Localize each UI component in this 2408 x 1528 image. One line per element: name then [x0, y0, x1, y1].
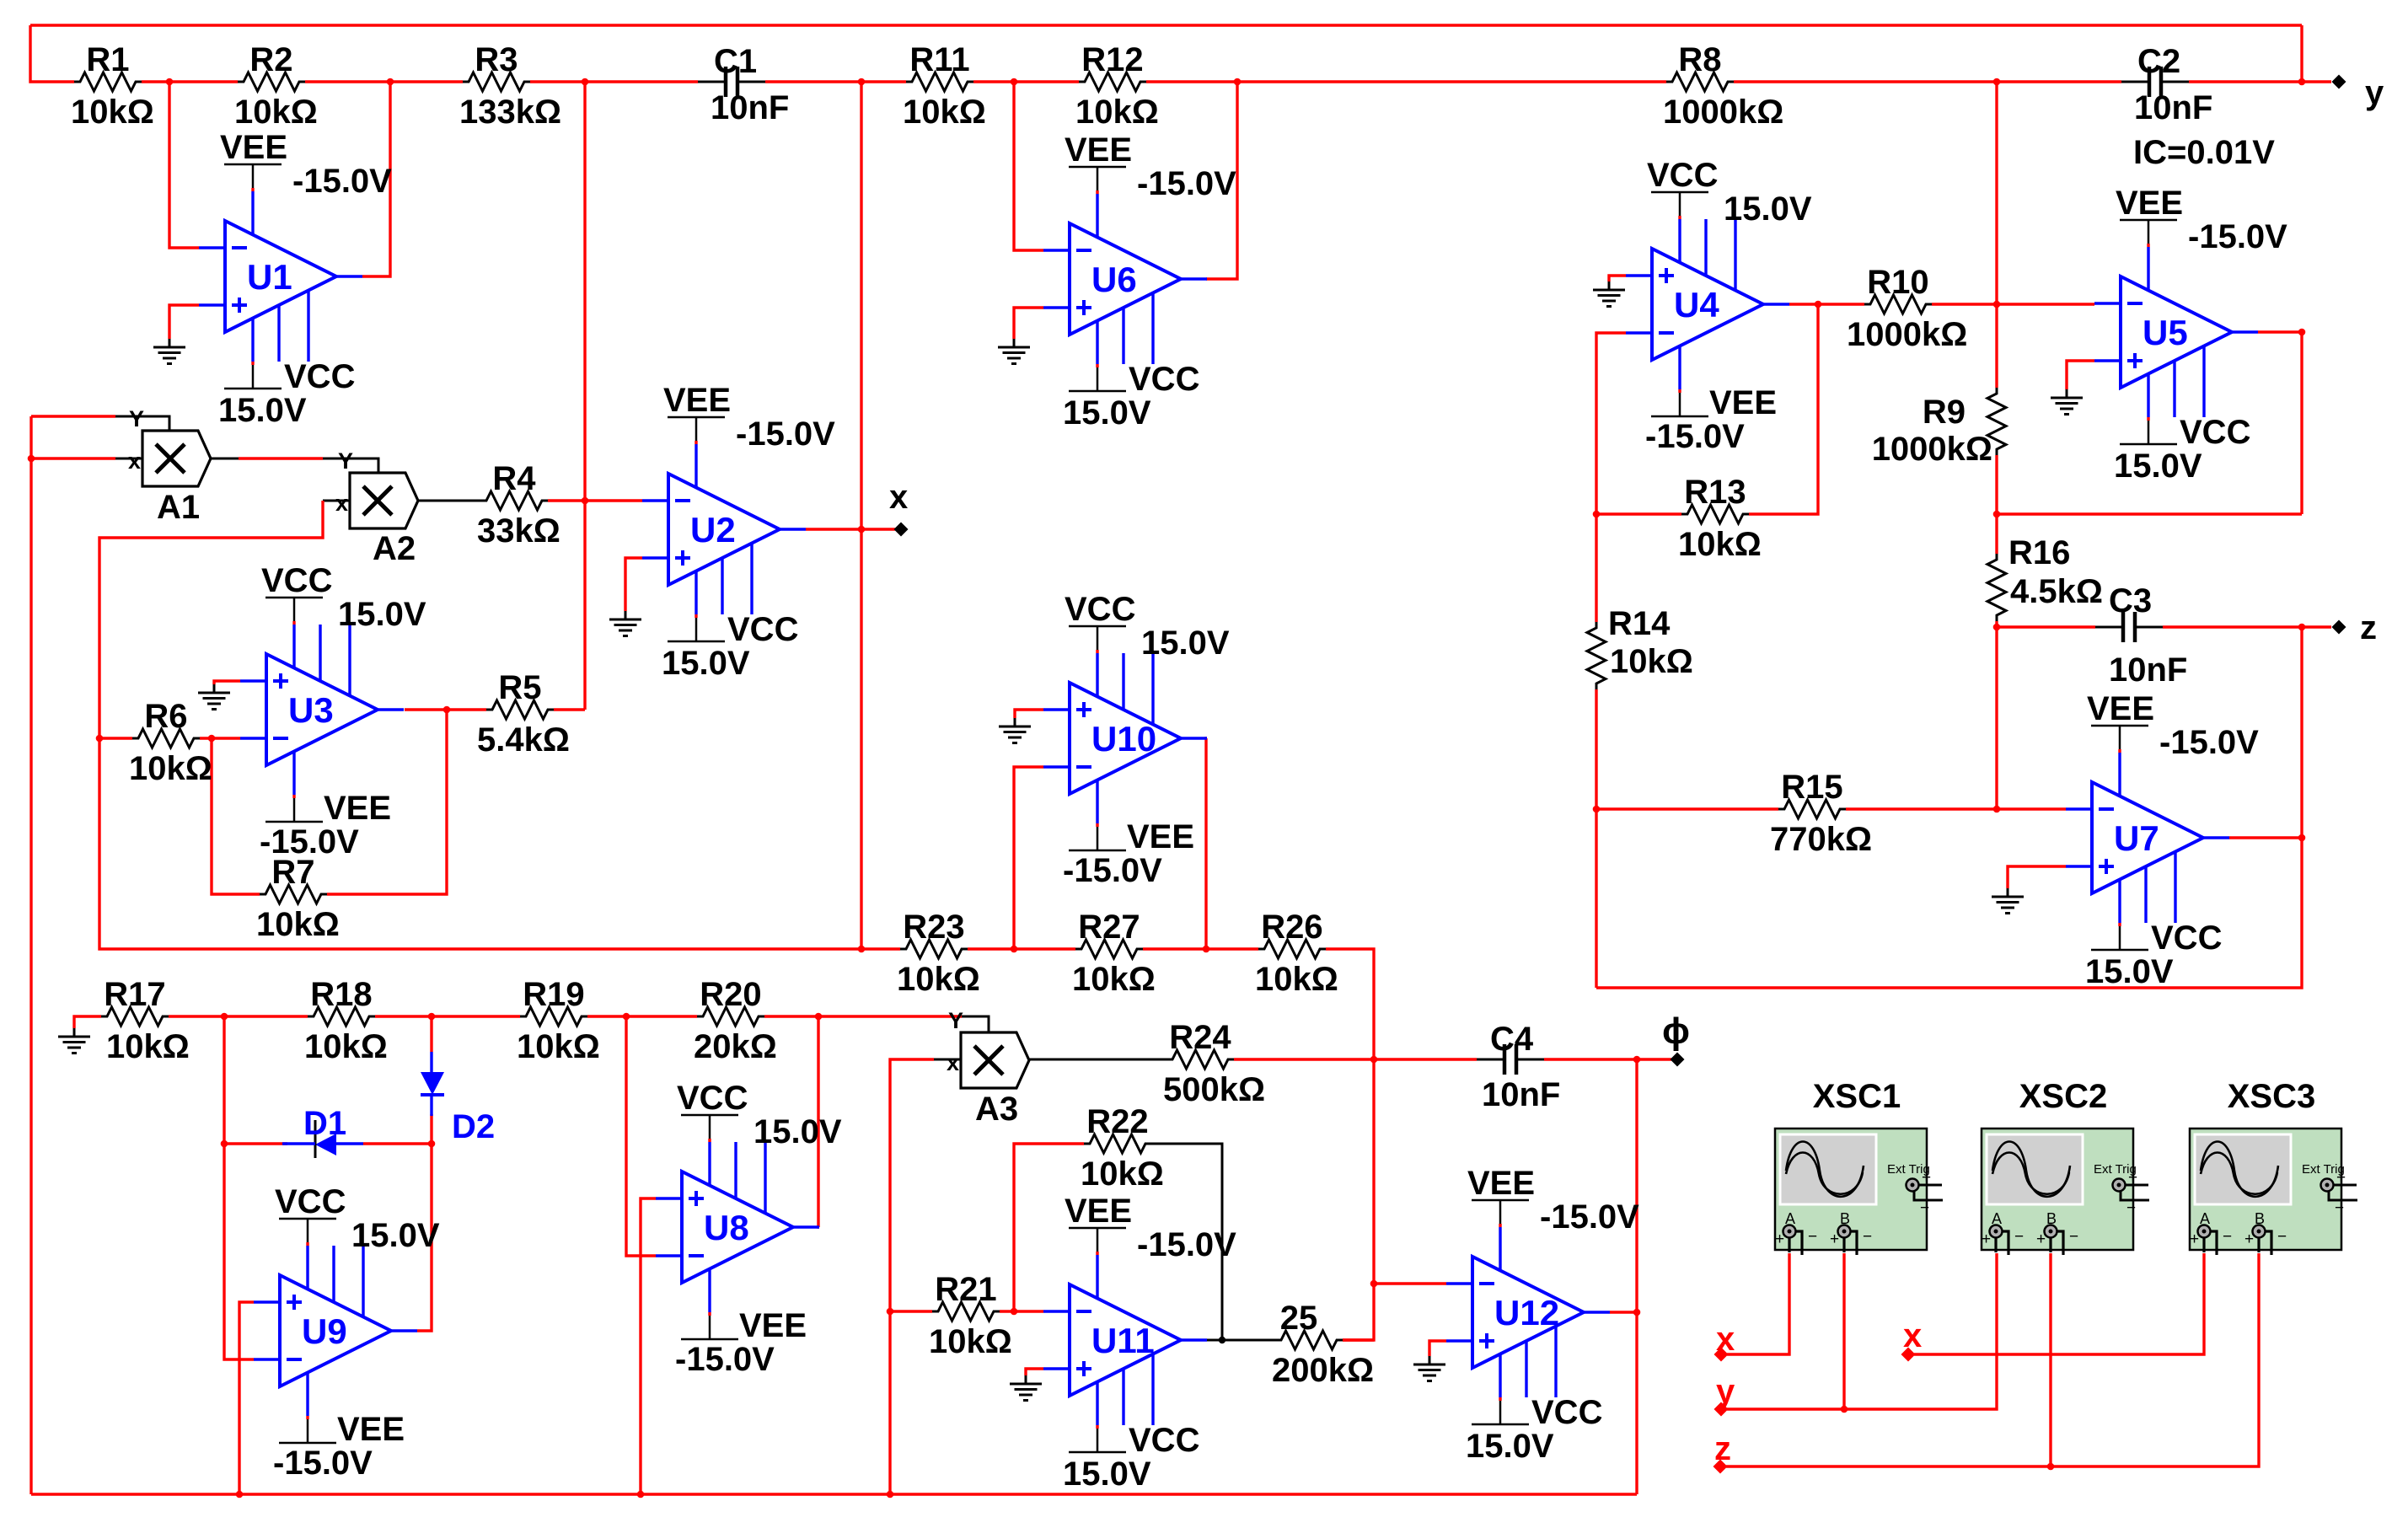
svg-text:R16: R16	[2008, 534, 2070, 571]
svg-text:R6: R6	[144, 698, 187, 735]
op-amp U1	[225, 221, 336, 332]
svg-text:15.0V: 15.0V	[1466, 1428, 1554, 1465]
svg-text:R10: R10	[1867, 264, 1928, 301]
terminal z	[2332, 620, 2346, 635]
svg-text:U11: U11	[1091, 1321, 1155, 1360]
wire U10 minus vertical	[1014, 767, 1043, 949]
wire R10 to U5 minus	[1932, 303, 2094, 305]
op-amp U2	[668, 474, 780, 585]
wire XSC1 B drop	[1842, 1253, 1845, 1409]
wire U4 minus feed vertical	[1596, 333, 1626, 514]
wire R25 right lead	[1343, 1338, 1374, 1341]
wire D2 column to U9 output	[417, 1144, 432, 1331]
node D1 left junction	[221, 1140, 228, 1148]
svg-text:10nF: 10nF	[2134, 89, 2212, 126]
op-amp U10	[1070, 683, 1181, 794]
svg-text:10kΩ: 10kΩ	[234, 94, 318, 131]
svg-text:-15.0V: -15.0V	[736, 416, 835, 453]
svg-text:U1: U1	[247, 257, 292, 297]
wire phi vertical to U12 output and rail	[1635, 1059, 1638, 1494]
wire R17 to R18	[169, 1015, 308, 1017]
svg-text:x: x	[335, 491, 348, 516]
resistor R13	[1681, 505, 1749, 523]
svg-text:R19: R19	[523, 976, 584, 1013]
svg-text:15.0V: 15.0V	[218, 392, 307, 429]
wire R6 row	[99, 737, 132, 739]
svg-text:VEE: VEE	[2087, 690, 2154, 727]
diode D2	[421, 1072, 444, 1095]
ground U12 plus	[1429, 1356, 1431, 1364]
node R21-R22 junction	[1011, 1308, 1018, 1316]
resistor R21	[932, 1302, 1000, 1321]
op-amp U12	[1472, 1257, 1584, 1368]
node R19-R20 junction	[623, 1013, 630, 1021]
wire U12 plus to ground	[1429, 1341, 1446, 1356]
resistor R15	[1778, 800, 1846, 818]
svg-text:U10: U10	[1091, 719, 1156, 759]
svg-text:U2: U2	[690, 510, 736, 550]
wire C3 row left	[1997, 625, 2095, 628]
node R16-C3 junction	[1993, 624, 2001, 631]
svg-text:VCC: VCC	[677, 1080, 748, 1117]
wire A1 X input	[31, 457, 115, 459]
resistor R11	[906, 72, 973, 91]
svg-text:x: x	[1903, 1317, 1922, 1354]
node R14-R15 junction	[1593, 806, 1601, 813]
svg-text:-15.0V: -15.0V	[273, 1445, 373, 1482]
resistor R25	[1275, 1331, 1343, 1349]
wire C3 to z terminal	[2163, 625, 2331, 628]
node R10-R9 junction	[1993, 301, 2001, 308]
svg-text:Y: Y	[948, 1008, 963, 1033]
node R1-R2 junction	[166, 78, 174, 86]
node x vertical at U2 output	[858, 526, 866, 533]
oscilloscope XSC3	[2190, 1129, 2341, 1250]
svg-text:C3: C3	[2109, 582, 2152, 619]
svg-text:10kΩ: 10kΩ	[1075, 94, 1159, 131]
svg-text:-15.0V: -15.0V	[675, 1341, 775, 1378]
svg-text:R18: R18	[310, 976, 372, 1013]
svg-text:XSC2: XSC2	[2019, 1078, 2108, 1115]
svg-text:R22: R22	[1086, 1103, 1148, 1140]
svg-text:VEE: VEE	[220, 129, 287, 166]
svg-text:−: −	[2335, 1199, 2344, 1217]
wire U6 plus to ground	[1014, 308, 1043, 339]
svg-text:-15.0V: -15.0V	[1137, 165, 1236, 202]
ground U11 plus	[1025, 1375, 1027, 1384]
wire U4 plus to ground	[1609, 276, 1626, 281]
node z junction	[2298, 624, 2306, 631]
svg-text:R12: R12	[1081, 41, 1143, 78]
wire U3 plus to ground	[214, 681, 240, 684]
svg-text:VCC: VCC	[1647, 157, 1718, 194]
svg-text:25: 25	[1280, 1300, 1318, 1337]
svg-text:R27: R27	[1078, 909, 1140, 946]
terminal x to XSC1	[1714, 1348, 1729, 1362]
wire R9 branch vertical top	[1995, 82, 1998, 304]
ground U5 plus	[2066, 389, 2068, 398]
wire U12 minus feed	[1374, 1282, 1446, 1284]
svg-text:R1: R1	[86, 41, 129, 78]
wire XSC2 B drop	[2049, 1253, 2051, 1466]
svg-text:R14: R14	[1608, 605, 1671, 642]
wire R23 row to R27	[968, 947, 1075, 950]
oscilloscope XSC1	[1775, 1129, 1927, 1250]
node U7 output junction	[2298, 834, 2306, 842]
svg-text:R26: R26	[1261, 909, 1322, 946]
svg-text:VEE: VEE	[1065, 131, 1132, 169]
svg-text:VCC: VCC	[727, 611, 798, 648]
wire U8 output vertical	[818, 1016, 819, 1227]
multiplier A3	[961, 1032, 1029, 1088]
svg-text:−: −	[2223, 1228, 2232, 1246]
wire D1 row	[224, 1142, 287, 1145]
wire A2 X input	[323, 500, 350, 502]
resistor R27	[1075, 940, 1143, 958]
resistor R19	[520, 1007, 587, 1026]
wire U1 output to top row	[362, 82, 390, 276]
wire R7 right vertical	[327, 710, 447, 894]
ground U3 plus	[213, 684, 216, 693]
wire A3 X input	[934, 1059, 961, 1061]
svg-text:10kΩ: 10kΩ	[1081, 1155, 1164, 1193]
svg-text:R17: R17	[104, 976, 165, 1013]
svg-text:U7: U7	[2114, 818, 2159, 858]
wire D1 left column	[224, 1016, 254, 1359]
svg-text:VCC: VCC	[1065, 591, 1135, 628]
svg-text:−: −	[1808, 1228, 1817, 1246]
svg-text:-15.0V: -15.0V	[1645, 418, 1745, 455]
diode D1	[315, 1134, 336, 1155]
svg-text:z: z	[1714, 1430, 1731, 1467]
wire U12 output stub	[1610, 1311, 1637, 1313]
node phi junction	[1633, 1056, 1641, 1064]
wire U7 plus to ground	[2008, 866, 2066, 888]
wire R16-R15 vertical	[1995, 627, 1998, 809]
ground U1 plus	[169, 339, 171, 347]
node R4 - U2 minus junction	[582, 497, 589, 505]
svg-text:XSC3: XSC3	[2228, 1078, 2316, 1115]
terminal phi	[1671, 1053, 1685, 1067]
svg-text:VCC: VCC	[1129, 1422, 1199, 1459]
resistor R18	[308, 1007, 375, 1026]
svg-text:10kΩ: 10kΩ	[1610, 643, 1693, 680]
resistor R3	[463, 72, 530, 91]
svg-text:+: +	[2190, 1230, 2199, 1248]
svg-text:R23: R23	[903, 909, 964, 946]
resistor R17	[101, 1007, 169, 1026]
svg-text:x: x	[1716, 1321, 1735, 1358]
svg-text:VCC: VCC	[261, 562, 332, 599]
svg-text:-15.0V: -15.0V	[1540, 1198, 1639, 1236]
svg-text:VEE: VEE	[337, 1411, 405, 1448]
terminal y to scopes	[1714, 1402, 1729, 1417]
svg-text:−: −	[2014, 1228, 2024, 1246]
op-amp U11	[1070, 1284, 1181, 1396]
svg-text:VEE: VEE	[1709, 384, 1777, 421]
svg-text:-15.0V: -15.0V	[2188, 218, 2287, 255]
svg-text:10nF: 10nF	[1482, 1076, 1560, 1113]
svg-text:C4: C4	[1490, 1021, 1534, 1058]
node U12 minus junction	[1370, 1280, 1378, 1288]
svg-text:D2: D2	[452, 1108, 495, 1145]
svg-text:-15.0V: -15.0V	[2159, 724, 2259, 761]
resistor R24	[1166, 1050, 1234, 1069]
svg-text:x: x	[947, 1050, 959, 1075]
wire U11 plus to ground	[1026, 1369, 1043, 1375]
svg-text:A2: A2	[373, 530, 416, 567]
svg-text:VCC: VCC	[1129, 361, 1199, 398]
capacitor C2	[2121, 81, 2149, 83]
svg-text:1000kΩ: 1000kΩ	[1663, 94, 1783, 131]
node R6 junction on A2 column	[96, 735, 104, 743]
node D1-D2 junction	[428, 1140, 436, 1148]
node U5 output junction	[2298, 329, 2306, 336]
svg-text:VCC: VCC	[284, 358, 355, 395]
svg-text:y: y	[1716, 1373, 1735, 1410]
op-amp U9	[280, 1275, 391, 1386]
node A3-R21 junction	[887, 1308, 894, 1316]
svg-text:U3: U3	[288, 690, 334, 730]
svg-text:y: y	[2365, 74, 2384, 111]
svg-text:15.0V: 15.0V	[1141, 625, 1230, 662]
svg-text:VEE: VEE	[1127, 818, 1194, 855]
svg-text:20kΩ: 20kΩ	[694, 1028, 777, 1065]
svg-text:VEE: VEE	[324, 790, 391, 827]
node scope z junction	[2047, 1463, 2055, 1471]
svg-text:R15: R15	[1781, 769, 1842, 806]
svg-text:+: +	[1775, 1230, 1784, 1248]
wire R24 to C4	[1234, 1058, 1477, 1060]
wire scope y terminal row	[1727, 1253, 1997, 1409]
svg-text:ϕ: ϕ	[1662, 1011, 1690, 1052]
resistor R12	[1079, 72, 1146, 91]
wire A1 output to A2 Y	[211, 458, 239, 460]
wire U6 minus feed vertical	[1014, 82, 1043, 250]
wire R14 column	[1595, 514, 1597, 622]
svg-text:-15.0V: -15.0V	[1137, 1226, 1236, 1263]
svg-text:VCC: VCC	[2180, 414, 2250, 451]
wire A3 output to R24	[1029, 1059, 1166, 1061]
svg-text:x: x	[128, 448, 141, 474]
multiplier A2	[350, 473, 418, 528]
svg-text:U9: U9	[302, 1311, 347, 1351]
svg-text:R4: R4	[492, 460, 536, 497]
svg-text:33kΩ: 33kΩ	[477, 512, 560, 550]
wire R26 right to integrator column	[1326, 949, 1374, 1340]
wire scope x1 terminal to XSC1 A	[1727, 1253, 1789, 1354]
svg-text:C2: C2	[2137, 43, 2180, 80]
node R11-R12 junction	[1011, 78, 1018, 86]
svg-text:R3: R3	[475, 41, 518, 78]
resistor R2	[238, 72, 305, 91]
node A3 rail junction	[887, 1491, 894, 1499]
wire U8 minus vertical	[626, 1016, 656, 1256]
wire U7 output stub	[2229, 836, 2302, 839]
svg-text:15.0V: 15.0V	[1063, 1456, 1151, 1493]
resistor R22	[1084, 1134, 1151, 1153]
svg-text:+: +	[1982, 1230, 1991, 1248]
wire R16 leads	[1995, 514, 1998, 554]
svg-text:A1: A1	[157, 489, 200, 526]
resistor R1	[74, 72, 142, 91]
wire D2 leads	[430, 1016, 432, 1052]
wire U5 plus to ground	[2067, 361, 2094, 389]
wire R22 right black drop	[1151, 1144, 1222, 1340]
svg-text:10kΩ: 10kΩ	[929, 1323, 1012, 1360]
svg-text:VEE: VEE	[739, 1307, 807, 1344]
svg-text:U12: U12	[1494, 1293, 1559, 1332]
svg-text:15.0V: 15.0V	[338, 596, 426, 633]
svg-text:Y: Y	[129, 406, 144, 432]
svg-text:-15.0V: -15.0V	[1063, 852, 1162, 889]
svg-text:z: z	[2360, 609, 2377, 646]
wire U10 plus to ground	[1015, 710, 1043, 718]
node U12 output junction	[1633, 1309, 1641, 1316]
wire A1 Y input	[31, 415, 115, 417]
wire top border	[30, 24, 2302, 26]
terminal x to XSC3	[1901, 1348, 1916, 1362]
svg-text:U8: U8	[704, 1208, 749, 1247]
node x vertical at R23 rail	[858, 946, 866, 953]
wire x-node vertical from top row	[860, 82, 862, 949]
terminal y	[2332, 75, 2346, 89]
wire U1 minus feed	[169, 82, 199, 248]
resistor R5	[486, 700, 554, 719]
resistor R20	[697, 1007, 764, 1026]
svg-text:VCC: VCC	[1531, 1394, 1602, 1431]
svg-text:+: +	[2036, 1230, 2046, 1248]
node R27-R26 junction	[1203, 946, 1210, 953]
resistor R23	[900, 940, 968, 958]
capacitor C1	[698, 81, 726, 83]
svg-text:10kΩ: 10kΩ	[304, 1028, 388, 1065]
svg-text:U4: U4	[1674, 285, 1719, 324]
svg-text:15.0V: 15.0V	[351, 1217, 440, 1254]
svg-text:10kΩ: 10kΩ	[71, 94, 154, 131]
node A1 input junction	[28, 455, 35, 463]
svg-text:133kΩ: 133kΩ	[459, 94, 561, 131]
capacitor C4	[1477, 1059, 1504, 1061]
svg-text:15.0V: 15.0V	[754, 1113, 842, 1150]
svg-text:10kΩ: 10kΩ	[903, 94, 986, 131]
wire R7 left vertical	[212, 738, 260, 894]
oscilloscope XSC2	[1982, 1129, 2133, 1250]
svg-text:C1: C1	[714, 43, 757, 80]
svg-text:U5: U5	[2143, 313, 2188, 352]
svg-text:U6: U6	[1091, 260, 1137, 299]
wire U5 output vertical	[2258, 332, 2302, 514]
resistor R7	[260, 885, 327, 903]
svg-text:−: −	[2069, 1228, 2078, 1246]
svg-text:VEE: VEE	[1065, 1193, 1132, 1230]
node U8 plus rail junction	[637, 1491, 645, 1499]
svg-text:15.0V: 15.0V	[1724, 190, 1812, 228]
svg-text:−: −	[1863, 1228, 1872, 1246]
wire U1 plus to ground	[169, 305, 199, 339]
node R17-R18 junction	[221, 1013, 228, 1021]
node R15 junction at R16 column	[1993, 806, 2001, 813]
resistor R4	[480, 491, 548, 510]
svg-text:10kΩ: 10kΩ	[1255, 961, 1338, 998]
svg-text:1000kΩ: 1000kΩ	[1847, 316, 1967, 353]
wire R5 right end vertical	[583, 501, 586, 710]
svg-text:770kΩ: 770kΩ	[1770, 821, 1872, 858]
svg-text:VCC: VCC	[2151, 919, 2222, 957]
wire R4 right lead	[548, 499, 585, 501]
svg-text:4.5kΩ: 4.5kΩ	[2010, 573, 2103, 610]
svg-text:R2: R2	[249, 41, 292, 78]
node C4 input junction	[1370, 1056, 1378, 1064]
resistor R8	[1666, 72, 1734, 91]
wire U6 output vertical	[1206, 82, 1237, 279]
node U9 plus rail junction	[236, 1491, 244, 1499]
svg-text:10kΩ: 10kΩ	[897, 961, 980, 998]
node R3-C1 junction	[582, 78, 589, 86]
svg-text:D1: D1	[303, 1105, 346, 1142]
svg-text:200kΩ: 200kΩ	[1272, 1352, 1374, 1389]
op-amp U3	[266, 654, 378, 765]
svg-text:10nF: 10nF	[2109, 651, 2187, 689]
wire U4 output to R10	[1789, 303, 1864, 305]
node U4 output junction	[1815, 301, 1822, 308]
ground U2 plus	[625, 611, 627, 619]
node R8 right junction	[1993, 78, 2001, 86]
svg-text:R24: R24	[1169, 1019, 1231, 1056]
wire R13 row left	[1596, 512, 1681, 515]
wire R19 to R20	[587, 1015, 697, 1017]
svg-text:−: −	[1920, 1199, 1929, 1217]
svg-text:-15.0V: -15.0V	[292, 163, 392, 200]
svg-text:10kΩ: 10kΩ	[517, 1028, 600, 1065]
svg-text:XSC1: XSC1	[1813, 1078, 1901, 1115]
svg-text:15.0V: 15.0V	[2085, 953, 2174, 990]
wire R5 to R4 column	[554, 708, 585, 710]
op-amp U6	[1070, 223, 1181, 335]
wire scope x2 terminal to XSC3 A	[1914, 1253, 2204, 1354]
svg-text:VCC: VCC	[275, 1183, 346, 1220]
wire U3 output to R5	[405, 708, 486, 710]
svg-text:10kΩ: 10kΩ	[1678, 526, 1762, 563]
wire left rail vertical	[29, 416, 32, 1494]
node y junction	[2298, 78, 2306, 86]
node U11 output - R22 junction	[1219, 1337, 1225, 1343]
svg-text:10kΩ: 10kΩ	[106, 1028, 190, 1065]
node R6-R7 junction	[208, 735, 216, 743]
op-amp U4	[1652, 249, 1763, 360]
svg-text:−: −	[2277, 1228, 2287, 1246]
wire R9 leads	[1995, 304, 1998, 388]
resistor R16	[1987, 554, 2006, 621]
wire U9 plus vertical to bottom rail	[239, 1302, 254, 1494]
node scope y junction	[1841, 1406, 1848, 1413]
svg-text:R7: R7	[271, 854, 314, 891]
svg-text:15.0V: 15.0V	[2114, 448, 2202, 485]
resistor R9	[1987, 388, 2006, 455]
terminal z to scopes	[1713, 1460, 1728, 1474]
svg-text:VEE: VEE	[2116, 185, 2183, 222]
op-amp U8	[682, 1171, 793, 1283]
wire bottom rail	[31, 1493, 1637, 1495]
wire R13 feedback vertical	[1749, 304, 1818, 514]
node R13-R14 junction	[1593, 511, 1601, 518]
node R2-R3 junction	[387, 78, 394, 86]
wire top border right drop to y node	[2300, 25, 2303, 82]
svg-text:Y: Y	[338, 448, 353, 474]
ground R17 left	[73, 1028, 76, 1037]
resistor R26	[1258, 940, 1326, 958]
wire top border left drop	[30, 25, 74, 82]
